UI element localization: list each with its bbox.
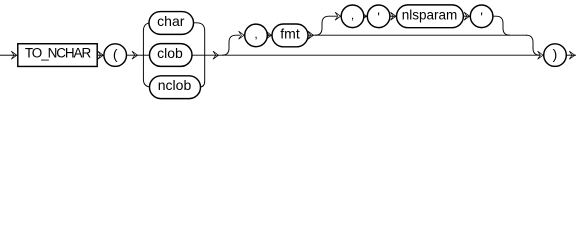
svg-text:': ' bbox=[480, 9, 482, 24]
svg-text:,: , bbox=[254, 27, 257, 41]
arrowhead into nlsparam comma circle bbox=[335, 12, 341, 20]
circle comma (fmt row) bbox=[245, 24, 268, 47]
oval clob bbox=[150, 44, 193, 67]
circle quote 1 bbox=[367, 5, 390, 28]
wire: entry line bbox=[0, 54, 16, 56]
arrowhead into TO_NCHAR box bbox=[11, 51, 17, 59]
svg-text:(: ( bbox=[113, 46, 118, 62]
circle comma (nlsparam row) bbox=[341, 5, 364, 28]
circle ) bbox=[544, 44, 567, 67]
wire: fmt level S-curve down to main line bbox=[526, 35, 540, 55]
arrowhead into fmt comma circle bbox=[239, 31, 245, 39]
svg-text:fmt: fmt bbox=[280, 26, 300, 42]
svg-text:char: char bbox=[157, 13, 185, 29]
svg-text:TO_NCHAR: TO_NCHAR bbox=[25, 45, 92, 60]
svg-text:,: , bbox=[351, 8, 354, 22]
wire: fmt split S-curve up bbox=[222, 35, 240, 55]
svg-text:nlsparam: nlsparam bbox=[402, 7, 458, 22]
circle quote 2 bbox=[470, 5, 493, 28]
wire: branch split vertical with corners bbox=[143, 23, 152, 87]
oval fmt bbox=[272, 24, 308, 47]
wire: box to ( circle bbox=[97, 54, 104, 56]
oval nlsparam bbox=[397, 5, 464, 28]
wire: nlsparam split S-curve up bbox=[315, 16, 337, 35]
svg-text:): ) bbox=[553, 46, 558, 62]
wire: ( circle through branch split to clob bbox=[126, 54, 150, 56]
svg-text:nclob: nclob bbox=[158, 77, 192, 93]
arrowhead into ( circle bbox=[98, 51, 104, 59]
keyword box TO_NCHAR bbox=[18, 44, 97, 67]
wire: nls comma to quote 1 bbox=[364, 15, 368, 17]
wire: nlsparam oval to quote 2 bbox=[463, 15, 470, 17]
wire: ) circle to exit bbox=[566, 54, 576, 56]
arrowhead into ) circle bbox=[538, 51, 544, 59]
circle ( bbox=[104, 44, 127, 67]
arrowhead at exit bbox=[569, 51, 575, 59]
arrowhead into nlsparam oval bbox=[391, 12, 397, 20]
svg-text:clob: clob bbox=[157, 45, 183, 61]
oval char bbox=[149, 12, 194, 35]
wire: after quote 2, S-curve down to fmt level bbox=[493, 16, 510, 35]
arrowhead after branch merge bbox=[213, 51, 219, 59]
arrowhead before branch split bbox=[132, 51, 138, 59]
wire: comma circle to fmt oval bbox=[267, 34, 272, 36]
wire: main line after merge, skip line to right merge bbox=[191, 54, 541, 56]
wire: quote 1 to nlsparam oval bbox=[390, 15, 397, 17]
svg-text:': ' bbox=[377, 9, 379, 24]
wire: branch merge vertical with corners bbox=[192, 23, 205, 87]
arrowhead into fmt oval bbox=[266, 31, 272, 39]
arrowhead into quote circle 2 bbox=[464, 12, 470, 20]
arrowhead into quote circle 1 bbox=[361, 12, 367, 20]
oval nclob bbox=[150, 76, 201, 99]
wire: fmt oval out / nlsparam skip line bbox=[308, 34, 527, 36]
arrowhead after fmt oval bbox=[308, 31, 314, 39]
